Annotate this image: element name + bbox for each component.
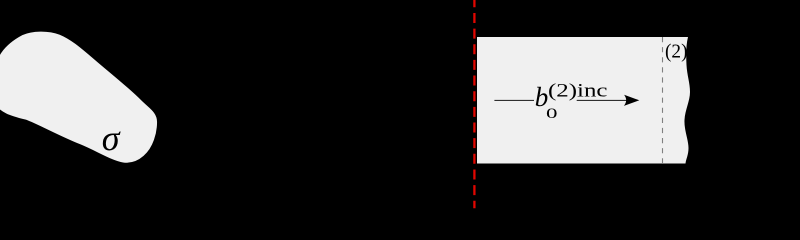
svg-text:0: 0 bbox=[546, 106, 558, 122]
svg-text:(2): (2) bbox=[665, 40, 688, 62]
red dashed interface line bbox=[473, 0, 475, 208]
dashed boundary line (virtual interface) bbox=[662, 37, 664, 163]
region (2) slab bbox=[477, 37, 690, 164]
incident wave arrow: left segment bbox=[494, 99, 534, 101]
incident wave arrow: right segment bbox=[577, 99, 628, 101]
arrowhead bbox=[624, 95, 639, 106]
scatterer blob sigma bbox=[0, 31, 158, 164]
svg-text:(2)inc: (2)inc bbox=[548, 81, 608, 102]
svg-text:σ: σ bbox=[102, 118, 121, 158]
